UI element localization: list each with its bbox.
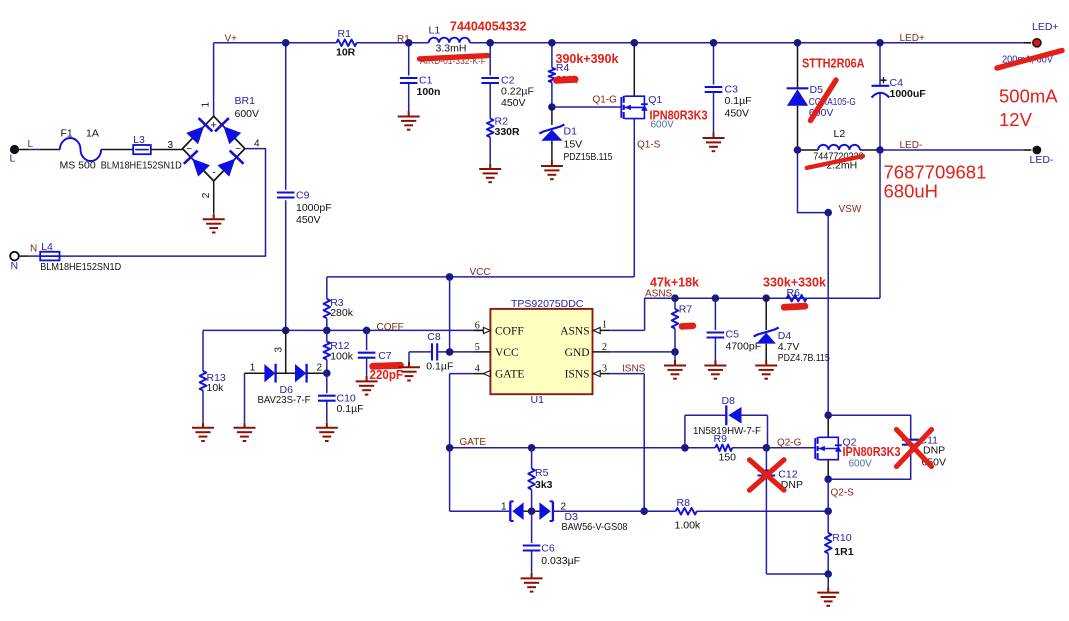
ferrite bead L4 (40, 252, 59, 261)
output terminal LED+ (1033, 39, 1041, 47)
C4 plus sign (880, 77, 886, 83)
ground under R7 (664, 360, 686, 379)
capacitor C9 (277, 193, 295, 198)
node Q1-G junction (548, 103, 556, 111)
ground under C6 (521, 573, 543, 592)
node rail junction R4 (548, 39, 556, 47)
ground under D6 pin 1 (234, 422, 256, 441)
svg-text:COFF: COFF (377, 322, 404, 333)
U1 pin 3 stub ISNS (593, 373, 611, 375)
capacitor C7 (366, 330, 368, 350)
svg-text:450V: 450V (725, 107, 750, 119)
resistor R8 (644, 510, 676, 512)
wire R4/D1 to Q1 gate (552, 106, 621, 108)
wire R10 to ground (827, 574, 829, 587)
ground at Q2 source network (817, 587, 839, 606)
svg-text:LED-: LED- (1030, 154, 1054, 166)
node LED- junction left (794, 146, 802, 154)
svg-text:C7: C7 (378, 350, 392, 362)
svg-text:ASNS: ASNS (560, 325, 589, 337)
svg-text:GND: GND (565, 347, 590, 359)
resistor R2 (487, 119, 494, 138)
ground under R13 (192, 422, 214, 441)
ground under C7 (356, 376, 378, 395)
node rail junction C3 (710, 39, 718, 47)
wire VSW vertical to Q2 drain (827, 213, 829, 416)
wire GATE net from pin 4 (449, 374, 451, 448)
wire VSW from LED- junction (798, 150, 829, 213)
capacitor C1 (408, 43, 410, 76)
wire C8 left to ground (408, 352, 410, 362)
U1 pin 2 stub GND (593, 351, 611, 353)
zener diode D4 (765, 298, 767, 330)
node Q2 source R8 R10 (824, 507, 832, 515)
svg-text:330k+330k: 330k+330k (763, 275, 826, 289)
svg-text:4: 4 (475, 364, 480, 375)
svg-text:R5: R5 (535, 467, 549, 479)
svg-text:1: 1 (201, 102, 212, 108)
svg-text:150: 150 (719, 451, 737, 463)
svg-text:GATE: GATE (460, 437, 487, 448)
svg-text:C4: C4 (890, 77, 904, 89)
svg-text:V+: V+ (225, 34, 238, 45)
node V+ rail junction C9 (282, 39, 290, 47)
node ASNS junction C5 (712, 294, 720, 302)
svg-text:0.1µF: 0.1µF (337, 403, 364, 415)
resistor R3 (326, 277, 328, 299)
svg-text:D5: D5 (810, 84, 824, 96)
capacitor C4 polarized (879, 43, 881, 86)
svg-text:1: 1 (250, 363, 256, 374)
wire LED- line (798, 149, 819, 151)
svg-text:15V: 15V (564, 139, 583, 151)
svg-text:12V: 12V (999, 109, 1033, 130)
svg-text:R8: R8 (677, 497, 691, 509)
svg-text:3: 3 (168, 140, 174, 151)
resistor R10 (827, 479, 829, 511)
svg-text:L: L (28, 139, 34, 150)
ground under C5 (704, 360, 726, 379)
svg-text:LED-: LED- (900, 140, 923, 151)
svg-text:100k: 100k (330, 350, 354, 362)
red X over C11 (897, 430, 932, 467)
node COFF junction C9/D6 (282, 327, 290, 335)
resistor R4 (551, 43, 553, 68)
svg-text:5: 5 (475, 342, 480, 353)
svg-text:CGRA105-G: CGRA105-G (809, 96, 856, 108)
node ASNS junction D4 (762, 294, 770, 302)
svg-text:4700pF: 4700pF (726, 341, 762, 353)
svg-text:0.1µF: 0.1µF (426, 360, 453, 372)
svg-text:PDZ15B.115: PDZ15B.115 (564, 151, 613, 163)
wire D6 pin1 to ground (244, 373, 246, 422)
IC U1 TPS92075DDC (490, 309, 592, 394)
svg-text:COFF: COFF (495, 325, 524, 337)
svg-text:VCC: VCC (470, 267, 491, 278)
R7 old value struck blob (679, 322, 697, 330)
resistor R1 (336, 40, 356, 47)
svg-text:600V: 600V (235, 108, 260, 120)
svg-text:3: 3 (274, 347, 285, 353)
diode D8 1N5819 (684, 415, 686, 448)
wire ASNS vertical from pin 1 (645, 298, 880, 330)
node Q2 drain (824, 411, 832, 419)
svg-text:D8: D8 (722, 395, 736, 407)
ground under C3 (703, 133, 725, 152)
wire to Q2 gate (766, 447, 815, 449)
dual diode D3 BAW56 (509, 501, 511, 521)
svg-text:DNP: DNP (923, 445, 945, 457)
C7 old value struck out blob (369, 362, 404, 370)
svg-text:Q2-S: Q2-S (831, 487, 855, 498)
svg-text:330R: 330R (495, 126, 521, 138)
red X over C12 (750, 460, 785, 490)
wire V+ rail R1 to L1 (357, 42, 429, 44)
svg-text:~: ~ (235, 144, 241, 155)
svg-text:280k: 280k (330, 307, 354, 319)
svg-text:680uH: 680uH (884, 181, 939, 202)
svg-text:C6: C6 (541, 543, 555, 555)
svg-text:1A: 1A (86, 128, 99, 140)
wire VCC down to pin 5 (449, 277, 451, 352)
input terminal L (10, 145, 19, 154)
svg-text:BLM18HE152SN1D: BLM18HE152SN1D (101, 159, 182, 171)
ground under C1 (398, 111, 420, 130)
svg-text:-: - (213, 168, 216, 179)
node R10 bottom C12 (824, 570, 832, 578)
svg-text:450V: 450V (296, 214, 321, 226)
wire N terminal to L4 (19, 255, 30, 257)
node Q2 source (824, 475, 832, 483)
input terminal N (10, 252, 19, 261)
svg-text:R1: R1 (338, 28, 352, 40)
svg-text:L: L (10, 153, 16, 165)
svg-text:F1: F1 (61, 128, 73, 140)
svg-text:PDZ4.7B.115: PDZ4.7B.115 (778, 352, 830, 364)
svg-text:C3: C3 (725, 84, 739, 96)
svg-text:R10: R10 (832, 532, 851, 544)
resistor R13 (202, 330, 204, 371)
node VCC junction (446, 273, 454, 281)
ground under C8 (398, 362, 420, 381)
ground under R2 (479, 164, 501, 183)
svg-text:1N5819HW-7-F: 1N5819HW-7-F (693, 425, 761, 437)
node LED- junction right (876, 146, 884, 154)
node D3 center (528, 507, 536, 515)
zener diode D1 (551, 107, 553, 125)
inductor L1 (429, 38, 470, 43)
svg-text:7687709681: 7687709681 (884, 162, 987, 183)
wire L3 to bridge pin 3 (151, 149, 183, 151)
dual diode D6 BAV23S (245, 372, 265, 374)
svg-text:600V: 600V (651, 120, 675, 131)
node R7 bottom GND pin (671, 348, 679, 356)
svg-text:2: 2 (317, 363, 323, 374)
svg-text:LED+: LED+ (900, 33, 925, 44)
svg-text:GATE: GATE (495, 369, 524, 381)
svg-text:1R1: 1R1 (834, 546, 853, 558)
wire ISNS vertical (643, 374, 645, 512)
svg-text:Q1-G: Q1-G (593, 95, 618, 106)
svg-text:L1: L1 (429, 25, 441, 37)
resistor R7 (674, 298, 676, 309)
capacitor C11 snubber DNP (828, 415, 911, 439)
node ISNS / D3 pin2 / R8 (640, 507, 648, 515)
wire C9 branch vertical (285, 43, 287, 190)
svg-text:100n: 100n (417, 86, 441, 98)
svg-text:Q1: Q1 (648, 94, 662, 106)
svg-text:LED+: LED+ (1032, 21, 1059, 33)
capacitor C8 (409, 351, 432, 353)
svg-text:ISNS: ISNS (565, 369, 590, 381)
diode D5 (797, 43, 799, 88)
U1 pin 5 stub VCC (474, 351, 491, 353)
U1 pin 6 stub COFF (474, 329, 491, 331)
svg-text:~: ~ (186, 144, 192, 155)
svg-text:R9: R9 (714, 433, 728, 445)
wire COFF horizontal (203, 329, 490, 331)
node rail junction L1/C2 (486, 39, 494, 47)
ground under C10 (316, 422, 338, 441)
svg-text:IPN80R3K3: IPN80R3K3 (843, 445, 901, 459)
node VSW (824, 209, 832, 217)
svg-text:C1: C1 (419, 75, 433, 87)
svg-text:VSW: VSW (839, 204, 862, 215)
transistor Q1 IPN80R3K3 (633, 43, 635, 96)
svg-text:390k+390k: 390k+390k (556, 52, 619, 66)
wire GATE down to D3 pin 1 (449, 448, 451, 511)
svg-text:1: 1 (501, 502, 507, 513)
U1 pin 4 stub GATE (450, 373, 474, 375)
wire VCC horizontal (327, 276, 635, 278)
svg-text:74404054332: 74404054332 (450, 20, 527, 34)
R6 old value struck blob (781, 303, 809, 311)
svg-text:C5: C5 (726, 328, 740, 340)
svg-text:3.3mH: 3.3mH (436, 42, 467, 54)
svg-text:VCC: VCC (495, 347, 519, 359)
capacitor C6 (531, 511, 533, 543)
capacitor C5 (714, 298, 716, 330)
capacitor C3 (713, 43, 715, 85)
ferrite bead L3 (133, 145, 151, 154)
node D6 pin2 / R12 / C10 (323, 369, 331, 377)
resistor R12 (324, 342, 331, 360)
fuse F1 (60, 138, 101, 161)
svg-text:1.00k: 1.00k (675, 520, 701, 532)
svg-text:0.033µF: 0.033µF (541, 555, 580, 567)
wire top rail L1 to LED+ terminal (470, 42, 1024, 44)
node ASNS junction R7 (671, 294, 679, 302)
resistor R5 (531, 448, 533, 469)
node LED+ rail junction D5 (794, 39, 802, 47)
svg-text:220pF: 220pF (370, 368, 404, 382)
U1 pin 1 stub ASNS (593, 329, 611, 331)
svg-text:N: N (30, 243, 37, 254)
inductor L2 (818, 145, 860, 150)
svg-text:Q1-S: Q1-S (637, 140, 661, 151)
ground under D1 (541, 161, 563, 180)
svg-text:L2: L2 (834, 128, 846, 140)
svg-text:MS 500: MS 500 (60, 159, 96, 171)
transistor Q2 IPN80R3K3 (827, 415, 829, 437)
bridge rectifier BR1 (183, 116, 245, 181)
output terminal LED- (1033, 146, 1042, 155)
svg-text:BAV23S-7-F: BAV23S-7-F (258, 394, 311, 406)
svg-text:BR1: BR1 (235, 95, 256, 107)
node COFF junction R3/R12 (323, 327, 331, 335)
wire ASNS right vertical to LED- (879, 150, 881, 298)
wire bridge pin 4 to N line (60, 149, 266, 257)
red strike over D5 (811, 80, 837, 121)
svg-text:Q2-G: Q2-G (777, 437, 802, 448)
svg-text:450V: 450V (501, 97, 526, 109)
capacitor C2 (489, 43, 491, 76)
wire bridge pin 2 to ground (213, 181, 215, 214)
wire L terminal to fuse (19, 149, 30, 151)
svg-text:10R: 10R (336, 47, 356, 59)
svg-text:500mA: 500mA (999, 86, 1058, 107)
node D8 right junction Q2 gate (763, 444, 771, 452)
node GATE D8 left junction (681, 444, 689, 452)
svg-text:10k: 10k (207, 382, 225, 394)
svg-text:1000pF: 1000pF (296, 202, 332, 214)
svg-text:2: 2 (201, 192, 212, 198)
svg-text:0.1µF: 0.1µF (725, 95, 752, 107)
node GATE left (446, 444, 454, 452)
wire V+ rail from bridge to R1 (214, 42, 337, 44)
D6 center tap wire pin 3 (285, 330, 287, 373)
capacitor C12 DNP (765, 448, 767, 471)
svg-text:TPS92075DDC: TPS92075DDC (511, 298, 584, 310)
ground under bridge (203, 214, 225, 233)
resistor R6 (787, 295, 807, 302)
svg-text:C8: C8 (427, 331, 441, 343)
wire fuse to L3 (101, 149, 133, 151)
svg-text:STTH2R06A: STTH2R06A (802, 57, 865, 71)
svg-text:1: 1 (602, 319, 607, 330)
wire R7 to ground (674, 352, 676, 360)
svg-text:600V: 600V (849, 459, 873, 470)
svg-text:BAW56-V-GS08: BAW56-V-GS08 (562, 521, 628, 533)
svg-text:C9: C9 (296, 190, 310, 202)
svg-text:47k+18k: 47k+18k (650, 275, 699, 289)
svg-text:2: 2 (602, 342, 607, 353)
svg-text:1000uF: 1000uF (890, 88, 927, 100)
svg-text:ISNS: ISNS (622, 363, 646, 374)
svg-text:D1: D1 (564, 126, 578, 138)
svg-text:0.22µF: 0.22µF (501, 85, 534, 97)
node rail junction Q1 drain (631, 39, 639, 47)
resistor R9 (685, 447, 715, 449)
svg-text:6: 6 (475, 320, 480, 331)
svg-text:3k3: 3k3 (535, 479, 553, 491)
svg-text:3: 3 (602, 364, 607, 375)
svg-text:BLM18HE152SN1D: BLM18HE152SN1D (40, 261, 121, 273)
svg-text:N: N (11, 260, 19, 272)
svg-text:U1: U1 (531, 394, 545, 406)
node COFF junction C7 (363, 327, 371, 335)
node rail junction R1/C1 (405, 39, 413, 47)
node C8 / VCC pin5 (446, 348, 454, 356)
node LED+ rail junction C4 (876, 39, 884, 47)
svg-text:+: + (210, 120, 216, 132)
node GATE R5 junction (528, 444, 536, 452)
svg-text:ASNS: ASNS (645, 288, 673, 299)
capacitor C10 (326, 373, 328, 393)
wire GATE horizontal (450, 447, 685, 449)
ground under D4 (755, 360, 777, 379)
svg-text:R7: R7 (679, 303, 693, 315)
